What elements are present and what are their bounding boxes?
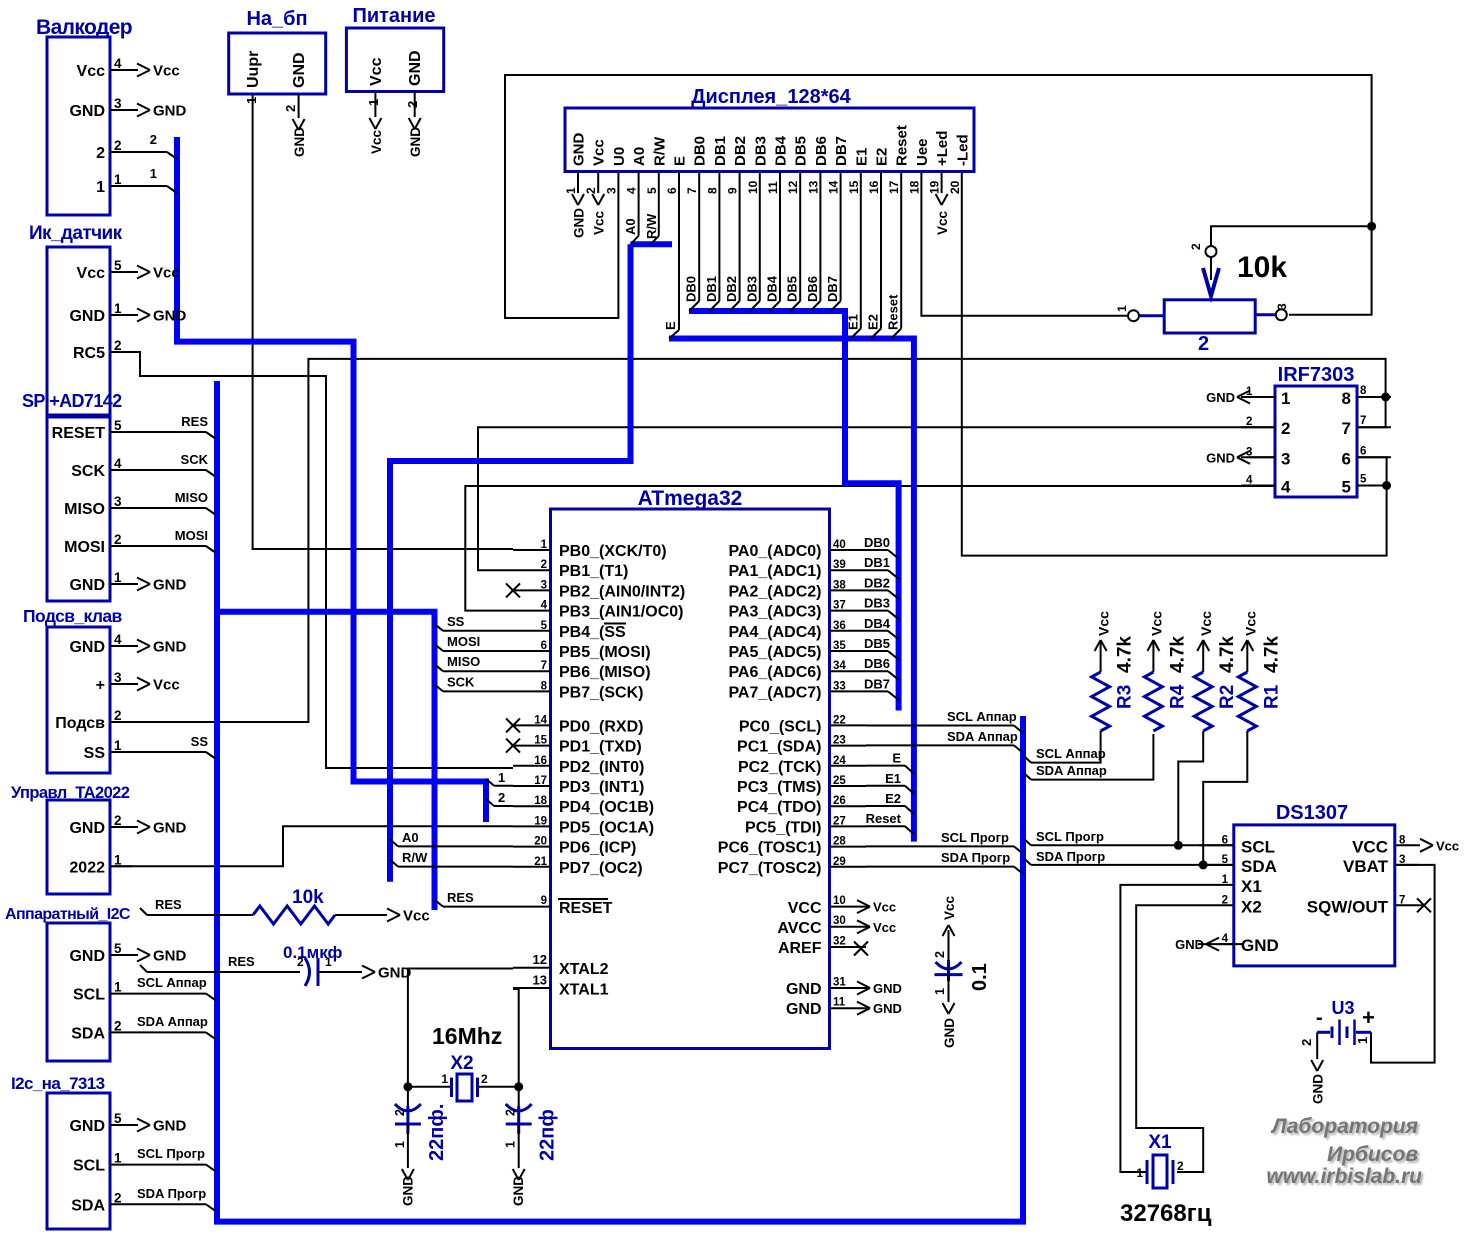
svg-text:Vcc: Vcc bbox=[873, 920, 896, 935]
svg-text:8: 8 bbox=[705, 187, 719, 194]
net 1 bus exit to PD3 bbox=[486, 770, 513, 786]
svg-text:DB4: DB4 bbox=[864, 616, 891, 631]
svg-text:3: 3 bbox=[114, 670, 122, 685]
wire PC0 SCL Аппар to bus bbox=[866, 709, 1023, 733]
svg-text:10: 10 bbox=[746, 180, 760, 194]
svg-text:PD1_(TXD): PD1_(TXD) bbox=[559, 739, 642, 756]
capacitor 22пф. at x=407.9 bbox=[393, 1087, 448, 1206]
svg-text:1: 1 bbox=[564, 187, 578, 194]
junction XTAL2/cap bbox=[403, 1082, 412, 1091]
svg-text:22: 22 bbox=[833, 714, 846, 726]
svg-text:Vcc: Vcc bbox=[1242, 611, 1258, 636]
svg-text:SCK: SCK bbox=[71, 463, 105, 480]
net SDA Прогр bus exit bbox=[1024, 849, 1106, 865]
svg-text:16Mhz: 16Mhz bbox=[432, 1023, 502, 1049]
flag Vcc DS1307 pin8 bbox=[1418, 838, 1459, 853]
svg-text:28: 28 bbox=[833, 836, 846, 848]
svg-text:PA5_(ADC5): PA5_(ADC5) bbox=[728, 644, 821, 661]
wire IRF pin8-pin7 link bbox=[1357, 397, 1386, 427]
svg-text:16: 16 bbox=[867, 180, 881, 194]
svg-text:XTAL2: XTAL2 bbox=[559, 961, 609, 978]
svg-text:-Led: -Led bbox=[954, 134, 971, 166]
resistor R1 4.7k bbox=[1238, 611, 1282, 731]
svg-text:9: 9 bbox=[726, 187, 740, 194]
svg-text:DB6: DB6 bbox=[864, 656, 890, 671]
svg-text:GND: GND bbox=[69, 308, 105, 325]
svg-text:DB3: DB3 bbox=[752, 136, 769, 166]
ic U? ATmega32 bbox=[513, 487, 866, 1049]
svg-text:SDA: SDA bbox=[1241, 857, 1277, 876]
svg-text:SCK: SCK bbox=[181, 452, 209, 467]
svg-text:2: 2 bbox=[114, 138, 122, 153]
svg-text:7: 7 bbox=[1360, 415, 1366, 427]
svg-text:5: 5 bbox=[541, 620, 548, 632]
wire RC5 to PD2_INT0 bbox=[113, 352, 513, 768]
wire Uee to pot pin1 bbox=[921, 172, 1128, 316]
svg-text:+Led: +Led bbox=[934, 131, 951, 166]
svg-text:8: 8 bbox=[541, 680, 548, 692]
svg-text:1: 1 bbox=[393, 1141, 407, 1148]
display pin4 A0 entry bbox=[623, 172, 639, 245]
svg-text:22пф.: 22пф. bbox=[426, 1104, 448, 1161]
potentiometer R? 10k bbox=[1115, 243, 1289, 355]
svg-text:Подсв_клав: Подсв_клав bbox=[23, 606, 123, 626]
svg-text:PC2_(TCK): PC2_(TCK) bbox=[738, 759, 822, 776]
wire DS1307 X1 to crystal X1 bbox=[1120, 885, 1233, 1172]
svg-text:X1: X1 bbox=[1241, 877, 1262, 896]
svg-text:6: 6 bbox=[1360, 445, 1366, 457]
svg-text:2: 2 bbox=[541, 559, 547, 571]
svg-text:0.1мкф: 0.1мкф bbox=[283, 943, 342, 962]
svg-text:RES: RES bbox=[181, 414, 208, 429]
svg-text:1: 1 bbox=[441, 1072, 448, 1086]
svg-text:PB4_(SS: PB4_(SS bbox=[559, 624, 626, 641]
junction IRF pin5 bbox=[1382, 481, 1391, 490]
svg-text:X2: X2 bbox=[1241, 897, 1262, 916]
svg-text:2: 2 bbox=[114, 1190, 122, 1205]
svg-text:Vcc: Vcc bbox=[153, 63, 180, 80]
connector Управл_ТА2022 bbox=[11, 784, 187, 894]
svg-text:SDA Аппар: SDA Аппар bbox=[947, 729, 1018, 744]
display pin19 +Led Vcc flag bbox=[935, 172, 950, 236]
svg-text:SCK: SCK bbox=[447, 674, 475, 689]
svg-text:Vcc: Vcc bbox=[942, 895, 957, 920]
svg-text:1: 1 bbox=[114, 301, 122, 316]
svg-text:RES: RES bbox=[155, 897, 182, 912]
svg-text:PD6_(ICP): PD6_(ICP) bbox=[559, 840, 636, 857]
svg-text:DB0: DB0 bbox=[864, 535, 890, 550]
svg-text:8: 8 bbox=[1360, 385, 1367, 397]
svg-text:5: 5 bbox=[114, 1111, 122, 1126]
svg-text:ATmega32: ATmega32 bbox=[638, 487, 743, 510]
svg-text:GND: GND bbox=[408, 127, 423, 157]
svg-text:R2: R2 bbox=[1217, 685, 1238, 709]
svg-text:4: 4 bbox=[541, 600, 548, 612]
net MOSI bus exit to PB5 bbox=[435, 634, 514, 651]
wire DS1307 X2 to crystal X1 bbox=[1136, 905, 1234, 1172]
svg-text:Vcc: Vcc bbox=[935, 210, 950, 235]
net SCL Прогр bus exit bbox=[1024, 829, 1105, 845]
svg-text:2: 2 bbox=[1246, 416, 1252, 428]
svg-text:39: 39 bbox=[833, 559, 846, 571]
svg-text:1: 1 bbox=[1222, 874, 1229, 886]
svg-text:13: 13 bbox=[533, 973, 547, 988]
svg-text:GND: GND bbox=[1241, 936, 1279, 955]
crystal X1 32768гц bbox=[1120, 1132, 1212, 1227]
svg-text:DB7: DB7 bbox=[825, 276, 840, 302]
svg-text:SDA Аппар: SDA Аппар bbox=[137, 1014, 208, 1029]
svg-text:SCL: SCL bbox=[73, 1158, 105, 1175]
svg-text:GND: GND bbox=[153, 577, 187, 594]
wire pot wiper bbox=[1211, 226, 1372, 246]
svg-text:GND: GND bbox=[571, 133, 588, 167]
svg-text:1: 1 bbox=[114, 738, 122, 753]
no-connect AREF bbox=[854, 942, 868, 956]
svg-text:GND: GND bbox=[400, 1176, 415, 1206]
svg-text:DB3: DB3 bbox=[864, 596, 890, 611]
svg-text:4.7k: 4.7k bbox=[1167, 636, 1188, 673]
wire R2 to SCL wire bbox=[1178, 731, 1203, 845]
svg-text:DB1: DB1 bbox=[704, 276, 719, 302]
svg-text:I2c_на_7313: I2c_на_7313 bbox=[11, 1074, 105, 1093]
svg-text:2: 2 bbox=[1189, 243, 1203, 250]
svg-text:SDA: SDA bbox=[71, 1025, 105, 1042]
svg-text:18: 18 bbox=[534, 795, 547, 807]
svg-text:MOSI: MOSI bbox=[447, 634, 480, 649]
svg-text:DB4: DB4 bbox=[765, 275, 780, 302]
svg-text:Vcc: Vcc bbox=[403, 908, 430, 925]
svg-text:7: 7 bbox=[1399, 894, 1405, 906]
svg-text:30: 30 bbox=[833, 915, 846, 927]
svg-text:3: 3 bbox=[114, 96, 122, 111]
wire IRF pin6-pin5 to -Led bbox=[962, 172, 1387, 556]
svg-text:AREF: AREF bbox=[778, 940, 822, 957]
wire PC6 SCL Прогр to bus bbox=[866, 830, 1023, 853]
svg-text:GND: GND bbox=[1206, 450, 1235, 465]
svg-text:SCL: SCL bbox=[1241, 837, 1275, 856]
svg-text:A0: A0 bbox=[631, 147, 648, 166]
svg-text:SPI+AD7142: SPI+AD7142 bbox=[22, 391, 122, 411]
svg-text:GND: GND bbox=[786, 1001, 822, 1018]
svg-text:RES: RES bbox=[228, 954, 255, 969]
svg-text:DB0: DB0 bbox=[692, 136, 709, 166]
svg-text:2: 2 bbox=[114, 1018, 122, 1033]
svg-text:PA0_(ADC0): PA0_(ADC0) bbox=[728, 543, 821, 560]
resistor R2 4.7k bbox=[1194, 611, 1238, 731]
svg-text:RC5: RC5 bbox=[73, 345, 105, 362]
svg-text:2: 2 bbox=[498, 790, 505, 805]
svg-text:GND: GND bbox=[786, 981, 822, 998]
crystal X2 16Mhz bbox=[432, 1023, 502, 1101]
svg-text:6: 6 bbox=[665, 187, 679, 194]
svg-text:38: 38 bbox=[833, 579, 846, 591]
svg-text:XTAL1: XTAL1 bbox=[559, 982, 609, 999]
no-connect PD1 bbox=[506, 739, 520, 753]
flag Vcc on AVCC pin30 bbox=[857, 920, 896, 935]
svg-text:7: 7 bbox=[541, 660, 547, 672]
svg-text:DB2: DB2 bbox=[724, 276, 739, 302]
bus encoder from Valkoder to PD3/PD4 bbox=[177, 137, 486, 822]
svg-text:PD3_(INT1): PD3_(INT1) bbox=[559, 779, 644, 796]
svg-text:PB7_(SCK): PB7_(SCK) bbox=[559, 684, 643, 701]
svg-text:GND: GND bbox=[69, 948, 105, 965]
junction R1/SDA bbox=[1199, 860, 1208, 869]
svg-text:PA1_(ADC1): PA1_(ADC1) bbox=[728, 563, 821, 580]
svg-text:DB5: DB5 bbox=[864, 636, 890, 651]
svg-text:PA2_(ADC2): PA2_(ADC2) bbox=[728, 583, 821, 600]
svg-text:4: 4 bbox=[114, 456, 122, 471]
svg-text:37: 37 bbox=[833, 600, 846, 612]
svg-text:12: 12 bbox=[533, 952, 547, 967]
svg-text:5: 5 bbox=[1222, 854, 1229, 866]
svg-text:2: 2 bbox=[504, 1109, 518, 1116]
svg-text:20: 20 bbox=[534, 836, 547, 848]
svg-text:PC3_(TMS): PC3_(TMS) bbox=[737, 779, 821, 796]
net SCK bus exit to PB7 bbox=[435, 674, 514, 691]
ic DS1307 bbox=[1175, 802, 1418, 966]
junction XTAL1/cap bbox=[514, 1082, 523, 1091]
flag GND on pin11 bbox=[857, 1001, 902, 1016]
display pin16 E2 entry bbox=[866, 172, 882, 339]
svg-text:RESET: RESET bbox=[52, 425, 106, 442]
svg-text:GND: GND bbox=[153, 820, 187, 837]
svg-text:SS: SS bbox=[447, 614, 465, 629]
svg-text:На_бп: На_бп bbox=[246, 8, 307, 30]
svg-text:GND: GND bbox=[69, 577, 105, 594]
svg-text:GND: GND bbox=[153, 1118, 187, 1135]
svg-text:GND: GND bbox=[69, 1118, 105, 1135]
svg-text:3: 3 bbox=[1275, 303, 1289, 310]
wire SDA Progr to DS1307 bbox=[1031, 864, 1234, 866]
svg-text:Vcc: Vcc bbox=[153, 265, 180, 282]
svg-text:SDA Прогр: SDA Прогр bbox=[941, 850, 1010, 865]
svg-text:DB7: DB7 bbox=[833, 136, 850, 166]
svg-text:PA6_(ADC6): PA6_(ADC6) bbox=[728, 664, 821, 681]
svg-text:2: 2 bbox=[405, 101, 420, 108]
svg-text:24: 24 bbox=[833, 755, 846, 767]
wire R1 to SDA wire bbox=[1203, 731, 1247, 865]
svg-text:E: E bbox=[663, 321, 678, 330]
svg-text:1: 1 bbox=[1136, 1166, 1143, 1180]
svg-text:E1: E1 bbox=[885, 771, 901, 786]
resistor R3 4.7k bbox=[1092, 611, 1136, 731]
svg-text:GND: GND bbox=[153, 103, 187, 120]
svg-text:14: 14 bbox=[827, 180, 841, 194]
svg-text:15: 15 bbox=[534, 735, 547, 747]
svg-text:R/W: R/W bbox=[651, 136, 668, 166]
svg-text:29: 29 bbox=[833, 856, 846, 868]
wire Uupr to PB0 bbox=[253, 95, 513, 549]
svg-text:SS: SS bbox=[84, 745, 106, 762]
svg-text:1: 1 bbox=[366, 99, 381, 106]
svg-text:SDA Аппар: SDA Аппар bbox=[1036, 763, 1107, 778]
wire SDA Appar to R4 bbox=[1031, 734, 1153, 780]
svg-text:PB3_(AIN1/OC0): PB3_(AIN1/OC0) bbox=[559, 604, 683, 621]
svg-text:Vcc: Vcc bbox=[1198, 611, 1214, 636]
capacitor 22пф at x=518.7 bbox=[504, 1087, 559, 1206]
svg-text:21: 21 bbox=[534, 856, 547, 868]
svg-text:SCL: SCL bbox=[73, 987, 105, 1004]
capacitor C? 0.1 on Vcc bbox=[933, 895, 991, 1048]
svg-text:23: 23 bbox=[833, 735, 846, 747]
svg-text:PA3_(ADC3): PA3_(ADC3) bbox=[728, 604, 821, 621]
svg-text:U0: U0 bbox=[611, 147, 628, 166]
svg-text:3: 3 bbox=[604, 187, 618, 194]
svg-text:U3: U3 bbox=[1331, 998, 1354, 1018]
svg-text:PD5_(OC1A): PD5_(OC1A) bbox=[559, 819, 654, 836]
svg-text:2: 2 bbox=[393, 1109, 407, 1116]
svg-text:1: 1 bbox=[325, 955, 332, 969]
svg-text:GND: GND bbox=[1175, 937, 1204, 952]
svg-text:GND: GND bbox=[69, 820, 105, 837]
net A0 bus exit to PD6 bbox=[390, 830, 513, 846]
svg-text:SDA: SDA bbox=[71, 1197, 105, 1214]
svg-text:Vcc: Vcc bbox=[369, 129, 384, 154]
svg-text:8: 8 bbox=[1342, 389, 1351, 408]
svg-text:GND: GND bbox=[69, 639, 105, 656]
wire IRF gate4 to PB3 bbox=[465, 486, 1275, 611]
svg-text:SCL Прогр: SCL Прогр bbox=[941, 830, 1009, 845]
svg-text:1: 1 bbox=[1115, 305, 1129, 312]
wire PC3 E1 to E bus bbox=[866, 771, 914, 794]
svg-text:26: 26 bbox=[833, 795, 846, 807]
wire IRF gate2 to PB1 bbox=[478, 427, 1275, 570]
net SCL Аппар bus exit bbox=[1024, 746, 1106, 763]
wire SCL Appar to R3 bbox=[1031, 731, 1101, 763]
svg-text:6: 6 bbox=[541, 640, 547, 652]
wire crystal row bbox=[408, 1086, 451, 1088]
svg-text:GND: GND bbox=[873, 1001, 902, 1016]
junction IRF pin8 bbox=[1381, 393, 1390, 402]
svg-text:GND: GND bbox=[153, 308, 187, 325]
svg-text:1: 1 bbox=[541, 539, 548, 551]
svg-text:SQW/OUT: SQW/OUT bbox=[1307, 897, 1389, 916]
svg-text:E: E bbox=[672, 156, 689, 166]
svg-text:10: 10 bbox=[833, 895, 846, 907]
svg-text:Vcc: Vcc bbox=[153, 677, 180, 694]
connector Питание bbox=[346, 5, 443, 157]
svg-text:9: 9 bbox=[541, 895, 547, 907]
svg-text:Vcc: Vcc bbox=[1148, 611, 1164, 636]
svg-text:11: 11 bbox=[833, 997, 846, 1009]
svg-text:MOSI: MOSI bbox=[64, 539, 105, 556]
svg-text:GND: GND bbox=[69, 103, 105, 120]
svg-text:DB1: DB1 bbox=[712, 136, 729, 166]
svg-text:www.irbislab.ru: www.irbislab.ru bbox=[1266, 1165, 1422, 1188]
svg-text:PC0_(SCL): PC0_(SCL) bbox=[739, 718, 822, 735]
svg-text:DB2: DB2 bbox=[864, 575, 890, 590]
svg-text:2: 2 bbox=[481, 1072, 488, 1086]
svg-text:2: 2 bbox=[1198, 333, 1209, 355]
svg-text:PD7_(OC2): PD7_(OC2) bbox=[559, 860, 643, 877]
svg-text:PC7_(TOSC2): PC7_(TOSC2) bbox=[718, 860, 822, 877]
svg-text:PC5_(TDI): PC5_(TDI) bbox=[745, 819, 821, 836]
connector На_бп bbox=[229, 8, 326, 157]
svg-text:2: 2 bbox=[114, 708, 122, 723]
svg-text:3: 3 bbox=[541, 579, 547, 591]
svg-text:12: 12 bbox=[786, 180, 800, 194]
svg-text:AVCC: AVCC bbox=[777, 920, 822, 937]
svg-text:Uee: Uee bbox=[914, 138, 931, 166]
svg-text:RESET: RESET bbox=[559, 900, 613, 917]
svg-text:PC6_(TOSC1): PC6_(TOSC1) bbox=[718, 840, 822, 857]
svg-text:GND: GND bbox=[378, 965, 412, 982]
svg-text:GND: GND bbox=[291, 52, 308, 88]
svg-text:GND: GND bbox=[942, 1018, 957, 1048]
svg-text:14: 14 bbox=[534, 714, 547, 726]
wire crystal row right bbox=[477, 1086, 519, 1088]
svg-text:6: 6 bbox=[1222, 834, 1228, 846]
svg-text:X1: X1 bbox=[1148, 1132, 1172, 1153]
svg-text:4: 4 bbox=[1281, 478, 1291, 497]
svg-text:Vcc: Vcc bbox=[77, 63, 106, 80]
wire PC7 SDA Прогр to bus bbox=[866, 850, 1023, 874]
svg-text:DB3: DB3 bbox=[744, 276, 759, 302]
svg-text:1: 1 bbox=[114, 852, 122, 867]
svg-text:VBAT: VBAT bbox=[1343, 857, 1389, 876]
connector I2c_на_7313 bbox=[11, 1074, 216, 1229]
svg-text:GND: GND bbox=[1311, 1074, 1326, 1104]
svg-text:DB4: DB4 bbox=[773, 135, 790, 166]
svg-text:Reset: Reset bbox=[866, 811, 902, 826]
svg-text:2: 2 bbox=[1177, 1159, 1184, 1173]
bus DB0-DB7 bbox=[689, 311, 899, 711]
svg-text:Uupr: Uupr bbox=[245, 51, 262, 88]
svg-text:PD4_(OC1B): PD4_(OC1B) bbox=[559, 799, 654, 816]
svg-text:A0: A0 bbox=[623, 218, 638, 235]
svg-text:+: + bbox=[1362, 1005, 1375, 1030]
svg-text:SCL Аппар: SCL Аппар bbox=[947, 709, 1017, 724]
svg-text:SCL Прогр: SCL Прогр bbox=[1036, 829, 1104, 844]
svg-text:16: 16 bbox=[534, 755, 547, 767]
svg-text:6: 6 bbox=[1342, 449, 1351, 468]
svg-text:5: 5 bbox=[645, 187, 659, 194]
svg-text:IRF7303: IRF7303 bbox=[1278, 364, 1355, 386]
display pins7-14 DB bus entries bbox=[684, 172, 841, 312]
svg-text:1: 1 bbox=[96, 179, 105, 196]
wire XTAL2 to crystal bbox=[408, 969, 513, 1087]
svg-text:DB5: DB5 bbox=[785, 276, 800, 302]
resistor R? 10k RES pullup bbox=[140, 887, 430, 925]
wire 2022 to PD5_OC1A bbox=[113, 826, 513, 866]
svg-text:1: 1 bbox=[114, 570, 122, 585]
svg-text:GND: GND bbox=[511, 1176, 526, 1206]
svg-text:Дисплея_128*64: Дисплея_128*64 bbox=[691, 86, 851, 108]
svg-text:8: 8 bbox=[1399, 834, 1406, 846]
svg-text:4: 4 bbox=[625, 187, 639, 194]
svg-text:19: 19 bbox=[928, 180, 942, 194]
net R/W bus exit to PD7 bbox=[390, 850, 513, 867]
svg-text:Reset: Reset bbox=[894, 125, 911, 166]
svg-text:2: 2 bbox=[297, 955, 304, 969]
junction pot wiper bbox=[1367, 222, 1376, 231]
svg-text:2: 2 bbox=[96, 145, 105, 162]
svg-text:PB6_(MISO): PB6_(MISO) bbox=[559, 664, 651, 681]
connector SPI+AD7142 bbox=[22, 391, 216, 601]
svg-text:32768гц: 32768гц bbox=[1120, 1200, 1212, 1227]
resistor R4 4.7k bbox=[1144, 611, 1188, 731]
svg-text:2: 2 bbox=[584, 187, 598, 194]
svg-text:VCC: VCC bbox=[788, 900, 822, 917]
svg-text:DB6: DB6 bbox=[805, 276, 820, 302]
svg-text:PB0_(XCK/T0): PB0_(XCK/T0) bbox=[559, 543, 667, 560]
svg-text:1: 1 bbox=[504, 1141, 518, 1148]
svg-text:A0: A0 bbox=[402, 830, 419, 845]
wire PC4 E2 to E bus bbox=[866, 791, 914, 814]
watermark Лаборатория Ирбисов bbox=[1266, 1115, 1422, 1188]
svg-text:E2: E2 bbox=[874, 148, 891, 166]
svg-text:Питание: Питание bbox=[352, 5, 435, 27]
